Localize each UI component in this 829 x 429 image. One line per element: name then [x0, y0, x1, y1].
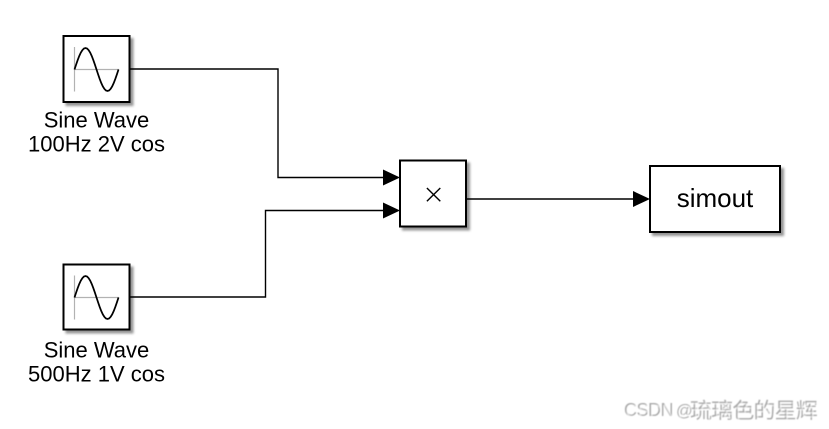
arrowhead simout in — [633, 191, 650, 207]
svg-text:simout: simout — [677, 183, 754, 213]
sine icon axes (bottom block) — [75, 276, 120, 320]
svg-text:CSDN: CSDN — [626, 402, 675, 422]
label Sine Wave 100Hz 2V cos — [28, 108, 165, 157]
wire sine1 to product in1 — [130, 69, 385, 178]
arrowhead product in2 — [383, 203, 400, 219]
svg-text:@: @ — [678, 404, 695, 422]
wire sine2 to product in2 — [130, 211, 385, 298]
svg-text:Sine Wave: Sine Wave — [44, 108, 150, 133]
label Sine Wave 500Hz 1V cos — [28, 338, 165, 387]
sine icon curve (bottom block) — [75, 276, 119, 319]
svg-text:500Hz 1V cos: 500Hz 1V cos — [28, 362, 165, 387]
block Sine Wave 500Hz 1V cos — [64, 265, 130, 330]
sine icon curve (top block) — [75, 48, 119, 91]
watermark CSDN — [624, 400, 818, 422]
arrowhead product in1 — [383, 170, 400, 186]
sine icon axes (top block) — [75, 47, 120, 92]
multiply x symbol — [427, 188, 440, 201]
wire product out to simout — [466, 198, 634, 200]
svg-text:Sine Wave: Sine Wave — [44, 338, 150, 363]
svg-text:100Hz 2V cos: 100Hz 2V cos — [28, 132, 165, 157]
block Sine Wave 100Hz 2V cos — [64, 36, 130, 102]
block simout (To Workspace) — [650, 166, 780, 232]
block Product (multiply) — [400, 161, 466, 227]
